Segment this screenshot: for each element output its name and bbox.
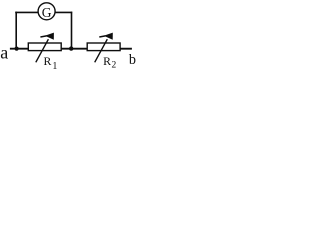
svg-text:R: R: [44, 54, 52, 68]
resistor R2 arrowhead tick: [99, 36, 105, 37]
resistor R2 body: [87, 43, 120, 51]
resistor R1 arrowhead tick: [40, 36, 46, 37]
wire bottom: R1 to R2: [61, 48, 89, 50]
svg-text:R: R: [103, 54, 111, 68]
wire bottom: R2 to b: [119, 48, 131, 50]
svg-text:1: 1: [52, 61, 57, 71]
resistor R2 wiper arrow line: [95, 39, 108, 62]
resistor R1 wiper arrow line: [36, 39, 49, 62]
wire left vertical: [15, 12, 17, 49]
wire top-left horizontal: [15, 11, 38, 13]
node junction middle (between R1 and R2): [69, 46, 73, 50]
wire top-right horizontal: [55, 11, 72, 13]
svg-text:2: 2: [112, 60, 117, 70]
resistor R2 wiper arrowhead: [104, 33, 113, 40]
svg-text:G: G: [42, 5, 52, 20]
wire right vertical: [71, 12, 73, 49]
svg-text:b: b: [129, 52, 136, 68]
node junction left (a branch): [15, 47, 19, 51]
resistor R1 wiper arrowhead: [45, 33, 54, 40]
wire bottom: a to R1: [10, 48, 29, 50]
svg-text:a: a: [0, 43, 8, 63]
galvanometer U1 circle: [38, 3, 55, 20]
resistor R1 body: [28, 43, 61, 51]
